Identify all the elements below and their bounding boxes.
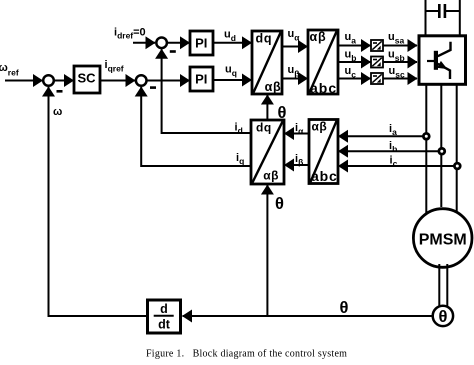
wire phase b bbox=[440, 85, 442, 207]
svg-text:dq: dq bbox=[256, 121, 272, 135]
svg-text:αβ: αβ bbox=[310, 30, 327, 44]
minus sign at S3 bbox=[170, 50, 176, 53]
wire u_alpha bbox=[282, 46, 308, 48]
svg-text:αβ: αβ bbox=[265, 80, 282, 94]
capacitor C DC link bbox=[426, 4, 460, 18]
block dq/ab inverse Park transform bbox=[252, 31, 282, 94]
motor PMSM bbox=[413, 209, 472, 268]
wire u_sb to inverter bbox=[383, 61, 417, 63]
shaft right line bbox=[446, 264, 448, 308]
svg-text:αβ: αβ bbox=[312, 120, 328, 134]
svg-text:abc: abc bbox=[311, 168, 338, 184]
wire omega feedback up into summing junction bbox=[49, 87, 147, 316]
current sensor tap c bbox=[454, 163, 460, 169]
current sensor tap b bbox=[439, 148, 445, 154]
wire u_beta bbox=[282, 78, 308, 80]
modulator M2 bbox=[371, 57, 383, 68]
wire omega_ref input bbox=[5, 80, 43, 82]
wire S2 to PI2 bbox=[147, 80, 190, 82]
block inverter bbox=[419, 36, 466, 85]
transistor IGBT inside inverter bbox=[427, 42, 451, 79]
wire i_alpha bbox=[285, 133, 310, 135]
summing junction S3 bbox=[156, 38, 167, 49]
block SC speed controller bbox=[74, 66, 100, 93]
block PI2 q-axis current controller bbox=[190, 67, 213, 91]
wire PI2 to dq block bbox=[213, 79, 252, 81]
wire i_d feedback into S3 bbox=[162, 49, 251, 133]
svg-text:PI: PI bbox=[195, 71, 207, 86]
wire theta into dq/ab block bbox=[266, 95, 268, 120]
svg-text:θ: θ bbox=[340, 299, 349, 317]
wire u_a to modulator bbox=[338, 45, 371, 47]
wire i_c feedback bbox=[339, 165, 458, 167]
wire S3 to PI1 bbox=[168, 42, 190, 44]
wire SC to summing junction S2 bbox=[100, 80, 135, 82]
summing junction S2 bbox=[136, 75, 147, 86]
wire PI1 to dq block bbox=[213, 42, 252, 44]
block ab/abc inverse Clarke transform bbox=[308, 30, 338, 94]
wire DC rail right bbox=[459, 0, 461, 36]
wire i_a feedback bbox=[339, 135, 427, 137]
modulator M1 bbox=[371, 40, 383, 51]
block ab/dq Park transform feedback bbox=[251, 120, 284, 184]
svg-text:abc: abc bbox=[310, 80, 337, 96]
block d/dt differentiator bbox=[148, 300, 181, 333]
current sensor tap a bbox=[423, 133, 429, 139]
wire phase a bbox=[425, 85, 427, 214]
svg-text:d: d bbox=[160, 302, 168, 316]
wire i_beta bbox=[285, 164, 310, 166]
svg-text:dt: dt bbox=[158, 317, 171, 331]
encoder theta bbox=[433, 306, 453, 326]
svg-text:θ: θ bbox=[438, 308, 447, 326]
wire i_dref input bbox=[133, 42, 155, 44]
svg-text:ω: ω bbox=[53, 106, 62, 118]
minus sign at S2 bbox=[150, 86, 156, 89]
svg-text:dq: dq bbox=[256, 31, 273, 45]
svg-text:PMSM: PMSM bbox=[419, 231, 467, 248]
modulator M3 bbox=[371, 73, 383, 84]
svg-text:PI: PI bbox=[195, 35, 207, 50]
svg-text:αβ: αβ bbox=[263, 169, 279, 183]
wire i_b feedback bbox=[339, 150, 442, 152]
svg-text:Figure 1. Block diagram of t: Figure 1. Block diagram of the control s… bbox=[146, 348, 347, 359]
shaft left line bbox=[438, 264, 440, 308]
wire phase c bbox=[456, 85, 458, 213]
wire S1 to SC bbox=[55, 80, 74, 82]
minus sign at S1 bbox=[57, 90, 63, 93]
wire i_q feedback into S2 bbox=[141, 87, 251, 166]
svg-text:θ: θ bbox=[275, 195, 284, 213]
wire u_sa to inverter bbox=[383, 45, 417, 47]
wire theta bottom to d/dt bbox=[183, 315, 433, 317]
wire theta into feedback dq block bbox=[266, 185, 268, 316]
block abc/ab Clarke transform feedback bbox=[309, 120, 338, 184]
wire u_sc to inverter bbox=[383, 78, 417, 80]
wire u_c to modulator bbox=[338, 78, 371, 80]
summing junction S1 bbox=[43, 75, 54, 86]
block PI1 d-axis current controller bbox=[190, 31, 213, 55]
wire DC rail left bbox=[425, 0, 427, 36]
svg-text:SC: SC bbox=[77, 71, 96, 86]
wire u_b to modulator bbox=[338, 61, 371, 63]
